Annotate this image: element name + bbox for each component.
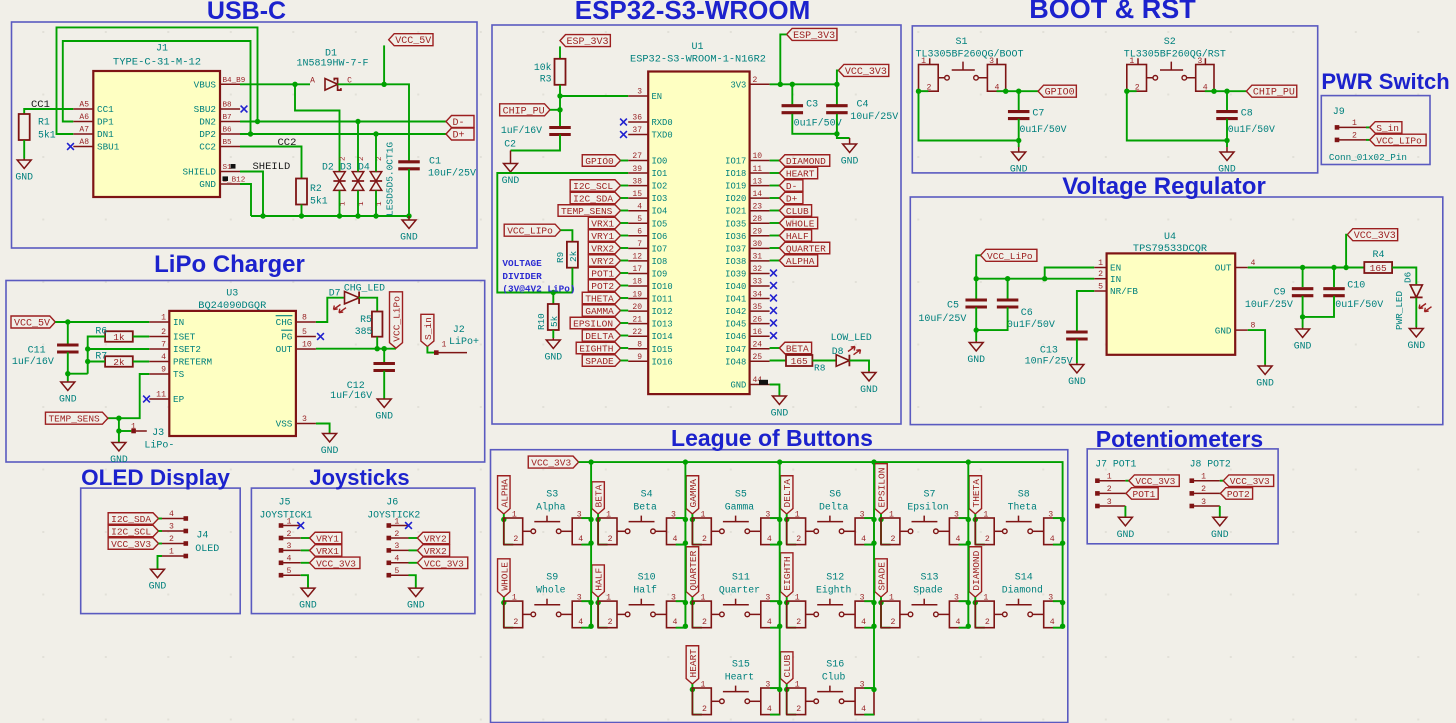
pin 4 of J4 (159, 518, 163, 520)
section box ESP32 (492, 25, 901, 424)
svg-text:GND: GND (1117, 529, 1135, 540)
svg-text:VOLTAGE: VOLTAGE (502, 258, 542, 269)
junction DN2-D3 (355, 119, 360, 124)
junction S11 pin1 (690, 600, 695, 605)
svg-text:21: 21 (632, 315, 642, 324)
pin IN (2) of U4 (1094, 278, 1106, 280)
svg-text:GND: GND (375, 411, 393, 422)
svg-text:10nF/25V: 10nF/25V (1025, 356, 1073, 368)
svg-text:15: 15 (632, 190, 642, 199)
svg-text:DP2: DP2 (199, 129, 216, 140)
pin CHG (8) of U3 (296, 321, 316, 323)
net label THETA (vertical flag) (969, 476, 982, 514)
ground under J4 (149, 569, 167, 592)
wire C6 column (1007, 279, 1009, 300)
junction top bus col2 (777, 459, 782, 464)
junction top bus col4 (966, 459, 971, 464)
wire D6 to ground (1415, 298, 1417, 327)
svg-text:3: 3 (1048, 594, 1053, 603)
svg-text:1: 1 (358, 201, 366, 206)
switch S4 Beta (598, 518, 617, 545)
no-connect J5 pin1 (297, 522, 304, 529)
wire GAMMA to pin1/pin2 (691, 514, 693, 545)
ground under J8 (1211, 517, 1229, 540)
ground under C9 (1294, 328, 1312, 352)
junction 3V3-ESP_3V3 (778, 82, 783, 87)
pin 2 of J9 (1335, 138, 1340, 143)
svg-text:GND: GND (321, 445, 339, 456)
wire D1 to C1 column (338, 84, 409, 162)
power flag VCC_3V3 (buttons) (528, 456, 578, 468)
switch S1 TL3305BF260QG/BOOT (919, 65, 939, 92)
svg-text:VRY2: VRY2 (424, 534, 447, 545)
svg-text:10k: 10k (534, 62, 552, 73)
svg-text:IO2: IO2 (652, 182, 668, 192)
pin 3 of J6 (387, 548, 392, 553)
wire C8 column (1226, 91, 1228, 111)
ground under D6 (1407, 327, 1425, 351)
net label SPADE (vertical flag) (875, 559, 888, 597)
svg-text:1: 1 (1107, 473, 1112, 482)
no-connect J6 pin1 (405, 522, 412, 529)
pin IO46 (16) of U1 (750, 335, 770, 337)
power flag VCC_LiPo (VR) (981, 249, 1037, 261)
svg-text:1: 1 (983, 511, 988, 520)
svg-text:DP1: DP1 (97, 117, 114, 128)
switch S13 Spade (881, 601, 900, 628)
svg-text:4: 4 (767, 618, 772, 627)
svg-text:POT2: POT2 (1227, 489, 1250, 500)
svg-text:1N5819HW-7-F: 1N5819HW-7-F (296, 59, 368, 70)
pin IO10 (18) of U1 (628, 285, 648, 287)
svg-text:GND: GND (199, 179, 216, 190)
svg-text:IO15: IO15 (652, 345, 673, 355)
junction DP2-loop (248, 131, 253, 136)
svg-text:5k1: 5k1 (38, 130, 56, 141)
svg-text:S_in: S_in (423, 317, 434, 340)
svg-text:VRX2: VRX2 (591, 244, 614, 255)
svg-text:C4: C4 (857, 99, 869, 110)
svg-text:TEMP_SENS: TEMP_SENS (48, 414, 100, 425)
capacitor C9 (1292, 289, 1314, 296)
svg-text:2: 2 (985, 535, 990, 544)
svg-text:A5: A5 (79, 101, 89, 110)
svg-text:GND: GND (771, 408, 789, 419)
junction VBUS-TVS (292, 82, 297, 87)
junction IN-C6 (1005, 276, 1010, 281)
power flag ESP_3V3 (left) (560, 35, 610, 47)
tvs diode D3 (352, 172, 364, 181)
pin IO41 (34) of U1 (750, 298, 770, 300)
pin SBU1 (A8) of J1 (73, 146, 93, 148)
svg-text:R6: R6 (95, 326, 107, 337)
svg-text:POT1: POT1 (591, 269, 614, 280)
svg-text:CLUB: CLUB (782, 654, 793, 677)
ground under C11 (59, 381, 77, 405)
wire ESP_3V3 drop (780, 34, 786, 84)
svg-text:36: 36 (632, 114, 642, 123)
svg-text:2: 2 (702, 705, 707, 714)
pin IO7 (7) of U1 (628, 247, 648, 249)
wire to J3 (119, 430, 131, 432)
svg-text:VCC_LIPo: VCC_LIPo (1376, 135, 1422, 146)
switch S5 Gamma (692, 518, 711, 545)
pin EN (3) of U1 (628, 95, 648, 97)
svg-text:D-: D- (786, 181, 797, 192)
svg-text:B7: B7 (223, 114, 232, 122)
net label VCC_3V3 (J5) (301, 562, 310, 564)
section box USB-C (12, 22, 478, 248)
svg-text:J7 POT1: J7 POT1 (1095, 459, 1136, 470)
svg-text:C13: C13 (1040, 346, 1058, 357)
junction S14 pin3 (1060, 600, 1065, 605)
wire R9 down (571, 268, 573, 293)
net label VCC_3V3 (J6) (409, 562, 418, 564)
wire S7 pin3/pin4 to bus (959, 517, 969, 519)
junction J3 (116, 428, 121, 433)
pin IO6 (6) of U1 (628, 235, 648, 237)
power flag ESP_3V3 (right) (787, 28, 837, 40)
junction bus-shield (260, 213, 265, 218)
net label D- (esp) (770, 185, 780, 187)
pin CC2 (B5) of J1 (220, 146, 240, 148)
svg-text:TPS79533DCQR: TPS79533DCQR (1133, 243, 1207, 255)
svg-text:HEART: HEART (688, 649, 699, 678)
svg-text:7: 7 (637, 240, 642, 249)
svg-text:27: 27 (632, 152, 642, 161)
svg-text:CHG: CHG (276, 317, 293, 328)
svg-text:D+: D+ (453, 131, 465, 142)
ground under U1 (771, 396, 789, 419)
svg-text:B6: B6 (223, 127, 233, 135)
svg-text:4: 4 (861, 535, 866, 544)
net label POT1 (588, 267, 620, 279)
net label VRX2 (588, 242, 620, 254)
svg-text:IO17: IO17 (725, 157, 746, 167)
net label QUARTER (vertical flag) (686, 547, 699, 597)
svg-text:3: 3 (954, 594, 959, 603)
svg-text:EIGHTH: EIGHTH (782, 556, 793, 590)
svg-text:GND: GND (1211, 529, 1229, 540)
pin TS (9) of U3 (149, 373, 169, 375)
svg-text:S8: S8 (1018, 490, 1030, 501)
svg-text:2: 2 (1352, 132, 1357, 141)
wire DIAMOND to pin1/pin2 (974, 597, 976, 628)
wire D3 column (357, 122, 359, 172)
svg-text:A7: A7 (79, 126, 89, 135)
section box Joysticks (251, 488, 475, 613)
capacitor C7 (1008, 112, 1029, 119)
svg-text:HALF: HALF (594, 567, 605, 590)
svg-text:4: 4 (169, 510, 174, 519)
svg-text:PG: PG (281, 332, 292, 343)
wire J9 pin1 (1366, 126, 1370, 128)
svg-text:QUARTER: QUARTER (786, 244, 826, 255)
pin 3 of J8 (1190, 504, 1195, 509)
resistor R3 (555, 59, 566, 85)
svg-text:IO41: IO41 (725, 295, 746, 305)
wire S15 pin3/pin4 to bus (770, 687, 780, 689)
svg-text:IO47: IO47 (725, 345, 746, 355)
svg-text:6: 6 (637, 228, 642, 237)
svg-text:Conn_01x02_Pin: Conn_01x02_Pin (1329, 152, 1407, 163)
svg-text:1uF/16V: 1uF/16V (12, 356, 54, 368)
pin IO1 (39) of U1 (628, 172, 648, 174)
svg-text:Club: Club (822, 672, 846, 683)
power flag VCC_LIPo (divider) (504, 224, 560, 236)
svg-text:PWR_LED: PWR_LED (1394, 291, 1405, 330)
net label EIGHTH (576, 342, 620, 354)
wire SPADE to pin1/pin2 (880, 597, 882, 628)
wire DP2 to D+ (240, 133, 446, 135)
wire WHOLE to pin1/pin2 (503, 597, 505, 628)
wire C9 column (1302, 268, 1304, 288)
svg-text:IO37: IO37 (725, 244, 746, 254)
net label HALF (vertical flag) (592, 565, 605, 597)
pin IO16 (9) of U1 (628, 360, 648, 362)
svg-text:1: 1 (606, 594, 611, 603)
wire EN jog (1045, 268, 1095, 279)
junction C12-OUT (382, 346, 387, 351)
junction S8 pin3 (1060, 517, 1065, 522)
svg-text:GND: GND (400, 232, 418, 243)
led D6 PWR_LED (1410, 285, 1422, 298)
net label THETA (582, 292, 620, 304)
svg-text:2: 2 (394, 530, 399, 539)
capacitor C4 (826, 106, 848, 113)
net label VRY1 (588, 230, 620, 242)
svg-text:POT2: POT2 (591, 281, 614, 292)
junction DP2-D4 (373, 131, 378, 136)
wire OUT rail (1248, 267, 1365, 269)
wire S1 pin4 to flag (997, 90, 1039, 92)
svg-text:C1: C1 (429, 157, 441, 168)
wire TEMP_SENS down (118, 418, 120, 442)
charger U3 BQ24090DGQR (169, 311, 296, 436)
svg-text:11: 11 (753, 165, 763, 174)
wire IN rail (976, 278, 1094, 280)
svg-text:D4: D4 (358, 162, 370, 173)
net label I2C_SCL (oled) (108, 525, 158, 537)
net label CLUB (vertical flag) (780, 652, 793, 684)
svg-text:2: 2 (608, 535, 613, 544)
svg-text:20: 20 (632, 303, 642, 312)
wire C8 bottom (1226, 119, 1228, 141)
junction S4 pin4 (683, 540, 688, 545)
svg-text:GND: GND (15, 172, 33, 183)
wire C5C6 bottom (976, 307, 1007, 330)
pin IO18 (11) of U1 (750, 172, 770, 174)
svg-text:33: 33 (753, 278, 763, 287)
svg-text:B5: B5 (223, 139, 233, 147)
svg-text:3: 3 (169, 523, 174, 532)
junction S3 pin3 (588, 517, 593, 522)
power flag VCC_5V (charger) (11, 316, 55, 328)
ground under C3C4 (841, 138, 859, 167)
svg-text:IN: IN (1110, 274, 1121, 285)
svg-text:CC2: CC2 (199, 142, 216, 153)
resistor R8 165 (786, 355, 812, 366)
junction S13 pin3 (966, 600, 971, 605)
svg-text:EIGHTH: EIGHTH (579, 344, 613, 355)
svg-text:2: 2 (796, 618, 801, 627)
svg-text:TL3305BF260QG/RST: TL3305BF260QG/RST (1124, 49, 1226, 61)
svg-text:POT1: POT1 (1133, 489, 1156, 500)
svg-text:IO36: IO36 (725, 232, 746, 242)
svg-text:S2: S2 (1164, 37, 1176, 48)
junction S5 pin1 (690, 517, 695, 522)
svg-text:EN: EN (652, 92, 663, 102)
svg-text:ESP_3V3: ESP_3V3 (793, 31, 835, 42)
svg-text:3: 3 (671, 511, 676, 520)
junction S1 pin2 (916, 89, 921, 94)
svg-text:VRX2: VRX2 (424, 546, 447, 557)
svg-text:J9: J9 (1333, 107, 1345, 118)
wire U4 GND (1248, 330, 1265, 364)
net label POT1 (1124, 492, 1127, 494)
svg-text:C9: C9 (1274, 288, 1286, 299)
wire QUARTER to pin1/pin2 (691, 597, 693, 628)
svg-text:ESP_3V3: ESP_3V3 (567, 37, 609, 48)
svg-text:1: 1 (795, 681, 800, 690)
wire C3C4 to ground (792, 114, 837, 134)
svg-text:Theta: Theta (1008, 502, 1038, 513)
svg-text:1: 1 (700, 681, 705, 690)
net label VCC_3V3 (oled) (108, 538, 158, 550)
svg-text:VCC_LiPo: VCC_LiPo (987, 251, 1033, 262)
svg-text:Joysticks: Joysticks (309, 465, 409, 490)
svg-text:1: 1 (161, 314, 166, 323)
svg-text:4: 4 (1050, 618, 1055, 627)
junction S1 cap top (1016, 89, 1021, 94)
svg-text:1: 1 (795, 594, 800, 603)
svg-text:I2C_SDA: I2C_SDA (573, 194, 613, 205)
svg-text:R3: R3 (540, 74, 552, 85)
ground under J6 (407, 588, 425, 611)
svg-text:GAMMA: GAMMA (585, 306, 614, 317)
net label DELTA (582, 330, 620, 342)
svg-text:I2C_SCL: I2C_SCL (573, 181, 613, 192)
pin 4 of J6 (387, 561, 392, 566)
svg-text:LESD5D5.0CT1G: LESD5D5.0CT1G (385, 142, 396, 216)
svg-text:3: 3 (860, 511, 865, 520)
pin DN1 (A7) of J1 (73, 133, 93, 135)
svg-text:17: 17 (632, 265, 642, 274)
svg-text:ISET2: ISET2 (173, 344, 201, 355)
no-connect IO46 (770, 332, 777, 339)
junction S7 pin1 (878, 517, 883, 522)
net label VRX2 (409, 549, 418, 551)
svg-text:7: 7 (161, 341, 166, 350)
wire R7 left (88, 361, 105, 363)
svg-text:C8: C8 (1241, 108, 1253, 119)
resistor R6 1k (105, 331, 133, 342)
svg-text:10uF/25V: 10uF/25V (1245, 299, 1293, 311)
wire C5 column (975, 279, 977, 300)
net label TEMP_SENS (558, 205, 620, 217)
ground under R10 (544, 338, 562, 363)
svg-text:2: 2 (608, 618, 613, 627)
svg-text:3: 3 (287, 542, 292, 551)
svg-text:2: 2 (287, 530, 292, 539)
pin IO4 (4) of U1 (628, 210, 648, 212)
pin IO45 (26) of U1 (750, 323, 770, 325)
junction S5 pin3 (777, 517, 782, 522)
mcu U1 ESP32-S3-WROOM-1-N16R2 (648, 72, 749, 395)
svg-text:WHOLE: WHOLE (499, 562, 510, 591)
svg-text:GND: GND (1407, 340, 1425, 351)
wire C3 column (791, 84, 793, 104)
pin VBUS (B4_B9) of J1 (220, 83, 240, 85)
switch S10 Half (598, 601, 617, 628)
svg-text:10uF/25V: 10uF/25V (918, 313, 966, 325)
svg-text:RXD0: RXD0 (652, 118, 673, 128)
pin S1 shield black tick (231, 164, 236, 169)
wire D7 to R5 (359, 298, 378, 312)
wire R6 right (133, 336, 150, 338)
pin 2 of J5 (279, 536, 284, 541)
svg-text:8: 8 (637, 340, 642, 349)
wire S1 pin2 loop (919, 91, 1019, 140)
net label HALF (esp) (770, 235, 780, 237)
svg-text:IO13: IO13 (652, 320, 673, 330)
svg-text:3: 3 (1107, 498, 1112, 507)
svg-text:USB-C: USB-C (207, 0, 286, 25)
svg-text:TEMP_SENS: TEMP_SENS (561, 206, 613, 217)
net label GPIO0 (1038, 85, 1076, 97)
svg-text:VRY1: VRY1 (316, 534, 339, 545)
svg-text:38: 38 (632, 177, 642, 186)
net label CLUB (esp) (770, 210, 780, 212)
net label S_in (vertical) (421, 314, 434, 346)
svg-text:IO10: IO10 (652, 282, 673, 292)
wire C11 top (67, 322, 69, 345)
svg-text:4: 4 (673, 618, 678, 627)
svg-text:R2: R2 (310, 183, 322, 194)
svg-text:31: 31 (753, 253, 763, 262)
svg-text:DELTA: DELTA (585, 331, 614, 342)
tvs diode D2 (334, 172, 346, 181)
switch S2 TL3305BF260QG/RST (1127, 65, 1147, 92)
svg-text:Beta: Beta (633, 502, 657, 513)
ground under C7 (1010, 147, 1028, 175)
svg-text:A8: A8 (79, 138, 89, 147)
capacitor C11 (57, 345, 79, 352)
wire HALF to pin1/pin2 (597, 597, 599, 628)
junction bus-C1 (406, 213, 411, 218)
diode D1 1N5819HW-7-F (325, 79, 338, 91)
pin 4 of J5 (279, 561, 284, 566)
pin 1 of J9 (1335, 125, 1340, 130)
svg-text:GND: GND (841, 156, 859, 167)
svg-text:2: 2 (891, 535, 896, 544)
svg-text:Delta: Delta (819, 502, 849, 513)
svg-text:D6: D6 (1403, 272, 1414, 283)
wire S2 pin4 to flag (1205, 90, 1247, 92)
svg-text:CC1: CC1 (31, 99, 50, 111)
pin CC1 (A5) of J1 (73, 108, 93, 110)
svg-text:1: 1 (795, 511, 800, 520)
svg-text:C7: C7 (1032, 108, 1044, 119)
svg-text:S10: S10 (638, 573, 656, 584)
svg-text:10: 10 (302, 341, 312, 350)
svg-text:CC1: CC1 (97, 104, 114, 115)
svg-text:ISET: ISET (173, 332, 196, 343)
capacitor C8 (1216, 112, 1238, 119)
wire divider to R10 (552, 293, 554, 305)
svg-text:1: 1 (889, 511, 894, 520)
net label ALPHA (esp) (770, 260, 780, 262)
